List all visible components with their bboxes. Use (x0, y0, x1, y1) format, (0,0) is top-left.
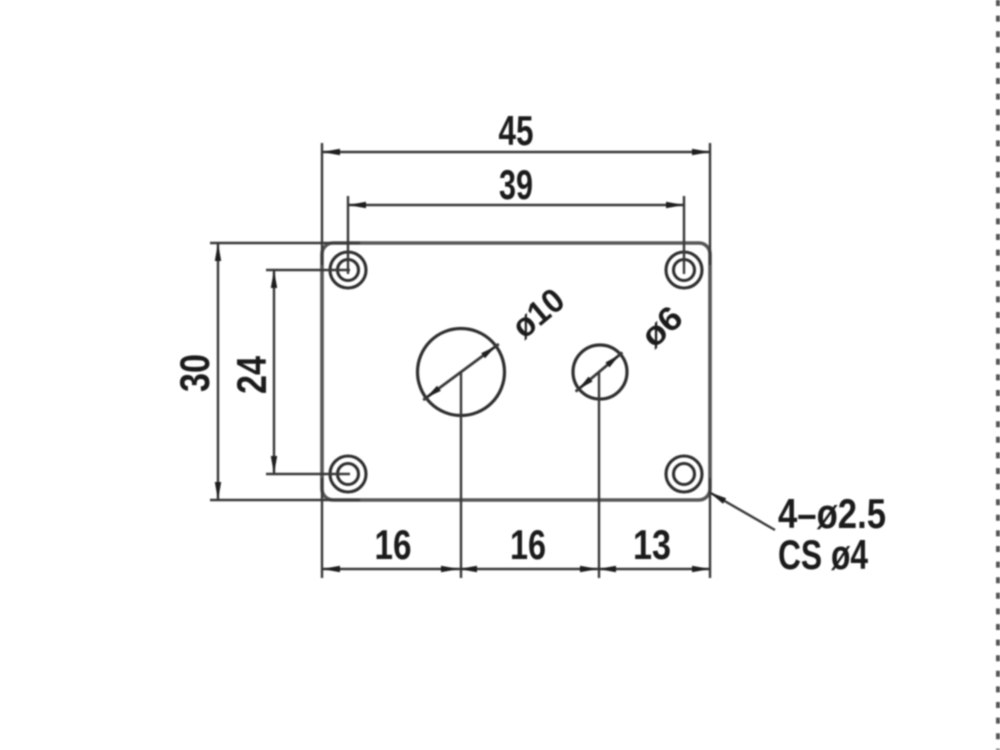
svg-text:4–ø2.5: 4–ø2.5 (778, 490, 886, 537)
svg-text:30: 30 (171, 354, 218, 392)
svg-text:ø6: ø6 (634, 299, 691, 355)
svg-text:24: 24 (228, 355, 275, 394)
svg-text:13: 13 (633, 521, 671, 568)
svg-text:ø10: ø10 (505, 281, 572, 346)
svg-text:CS ø4: CS ø4 (778, 531, 868, 578)
svg-text:16: 16 (375, 521, 412, 568)
svg-text:45: 45 (499, 107, 534, 154)
svg-text:16: 16 (510, 521, 546, 568)
svg-text:39: 39 (499, 161, 533, 208)
